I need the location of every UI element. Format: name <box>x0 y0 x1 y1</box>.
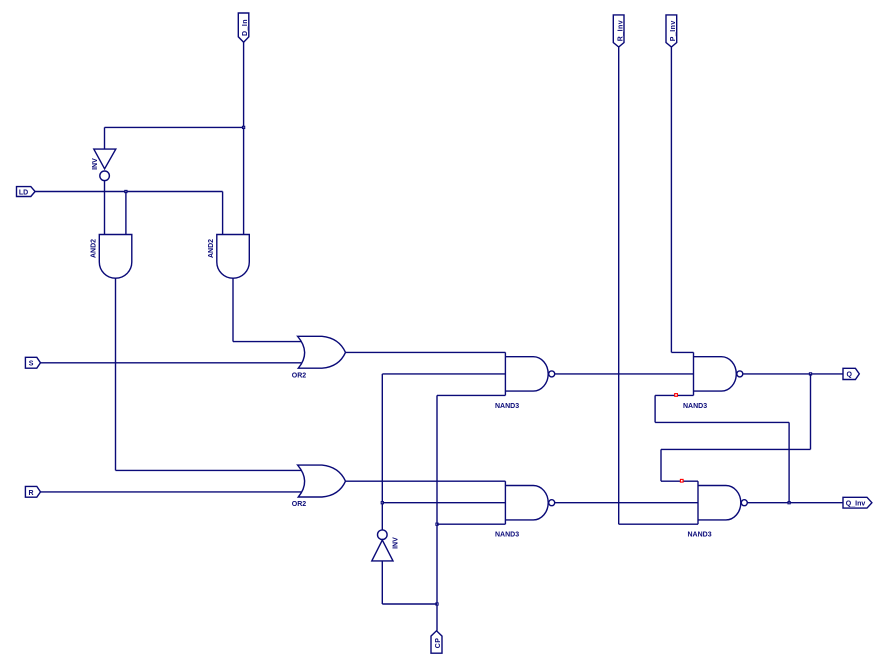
pin Q_Inv <box>843 497 872 508</box>
wire net R_Inv vertical <box>618 47 620 524</box>
inverter U1 INV (pointing down) <box>92 149 116 181</box>
svg-text:CP: CP <box>435 638 442 649</box>
wire INV out branch to NAND3 N2 input2 <box>382 502 505 504</box>
svg-text:NAND3: NAND3 <box>495 403 519 410</box>
wire Q feedback left <box>661 448 811 450</box>
pin R_Inv <box>613 15 624 47</box>
node CP branch junction 1 <box>436 523 438 525</box>
nand-gate N4 NAND3 (slave Q_Inv) <box>688 481 748 538</box>
wire INV U1 output to AND2 A1 <box>104 181 106 235</box>
svg-text:INV: INV <box>392 537 399 549</box>
nand-gate N3 NAND3 (slave Q) <box>683 352 743 410</box>
wire net S <box>41 362 302 364</box>
wire net LD down to AND2 A2 <box>222 192 224 235</box>
wire net D_In vertical <box>243 42 245 234</box>
pin D_In <box>238 13 249 42</box>
wire net CP to NAND3 N1 input3 <box>437 394 505 396</box>
svg-text:R: R <box>29 490 34 497</box>
pin CP <box>431 631 442 653</box>
svg-text:NAND3: NAND3 <box>688 532 712 539</box>
wire OR2 O2 output to NAND3 N2 input1 <box>346 480 506 482</box>
wire NAND3 N2 output to NAND3 N4 input2 <box>555 502 698 504</box>
wire OR2 O1 output to NAND3 N1 input1 <box>346 351 506 353</box>
or-gate O2 OR2 <box>292 465 346 508</box>
wire net CP vertical <box>436 395 438 630</box>
svg-text:P_Inv: P_Inv <box>670 20 677 41</box>
wire AND2 A1 output down <box>115 278 117 470</box>
wire to INV U1 input <box>104 127 106 149</box>
svg-text:AND2: AND2 <box>91 239 98 258</box>
marker red square on N3 input3 <box>675 394 678 397</box>
svg-text:S: S <box>29 361 34 368</box>
wire net CP to INV U2 input <box>382 561 437 604</box>
marker red square on N4 input1 <box>680 479 683 482</box>
svg-text:R_Inv: R_Inv <box>617 20 624 41</box>
wire net P_Inv to NAND3 N3 input1 <box>671 351 693 353</box>
or-gate O1 OR2 <box>292 336 346 379</box>
nand-gate N2 NAND3 (master reset) <box>495 481 555 538</box>
wire AND2 A2 output right to OR2 O1 <box>233 341 301 343</box>
wire net R_Inv to NAND3 N4 input3 <box>619 523 698 525</box>
and-gate A2 AND2 (pointing down) <box>208 235 249 279</box>
svg-text:AND2: AND2 <box>208 239 215 258</box>
wire INV U2 output vertical up <box>381 374 383 530</box>
node D_In branch junction <box>243 126 245 128</box>
wire Q feedback to NAND3 N4 input1 <box>661 480 698 482</box>
wire net P_Inv vertical <box>670 47 672 352</box>
svg-text:NAND3: NAND3 <box>683 403 707 410</box>
svg-text:LD: LD <box>19 189 28 196</box>
wire INV U2 output to NAND3 N1 input2 <box>382 373 505 375</box>
svg-text:Q_Inv: Q_Inv <box>846 501 866 508</box>
wire Q_Inv feedback up <box>788 422 790 502</box>
wire net LD horizontal <box>35 191 223 193</box>
svg-text:OR2: OR2 <box>292 372 307 379</box>
svg-text:NAND3: NAND3 <box>495 532 519 539</box>
wire Q_Inv feedback left <box>655 421 789 423</box>
wire Q_Inv feedback to NAND3 N3 input3 <box>655 394 693 396</box>
svg-text:INV: INV <box>92 158 99 170</box>
and-gate A1 AND2 (pointing down) <box>91 235 132 279</box>
wire AND2 A1 output right to OR2 O2 <box>116 469 302 471</box>
svg-text:Q: Q <box>847 372 853 379</box>
node Q feedback junction <box>809 373 811 375</box>
svg-text:D_In: D_In <box>242 19 249 36</box>
wire net CP to NAND3 N2 input3 <box>437 523 505 525</box>
wire net D_In horizontal branch <box>105 126 244 128</box>
node CP branch junction 2 <box>436 603 438 605</box>
node INV out branch junction <box>381 502 383 504</box>
wire net R <box>41 491 302 493</box>
pin P_Inv <box>666 15 677 47</box>
wire NAND3 N1 output to NAND3 N3 input2 <box>555 373 694 375</box>
wire Q feedback down 2 <box>660 449 662 481</box>
pin S <box>25 357 40 368</box>
nand-gate N1 NAND3 (master set) <box>495 352 555 410</box>
wire NAND3 N3 output to pin Q <box>743 373 843 375</box>
wire Q_Inv feedback up 2 <box>654 395 656 422</box>
pin LD <box>17 187 36 197</box>
node LD branch junction <box>125 190 127 192</box>
wire Q feedback down <box>810 374 812 450</box>
svg-text:OR2: OR2 <box>292 501 307 508</box>
inverter U2 INV (pointing up, clock) <box>372 530 400 561</box>
wire NAND3 N4 output to pin Q_Inv <box>747 502 843 504</box>
node Q_Inv feedback junction <box>788 502 790 504</box>
pin R <box>25 486 40 497</box>
wire AND2 A2 output down <box>232 278 234 341</box>
pin Q <box>843 368 859 379</box>
wire net LD branch down to AND2 A1 <box>125 192 127 235</box>
